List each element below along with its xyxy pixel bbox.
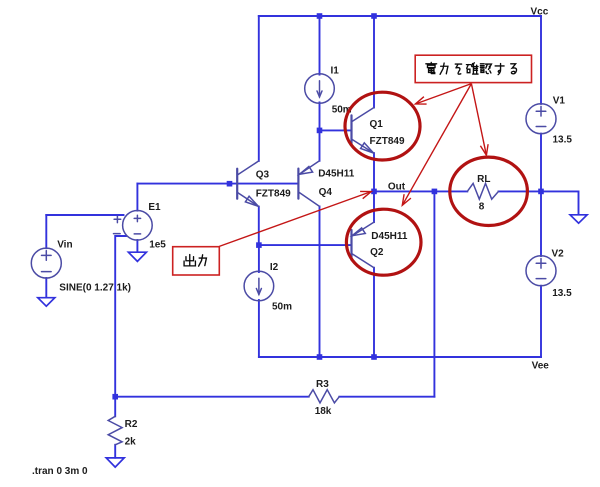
transistor Q4 PNP [298, 161, 319, 207]
svg-text:R3: R3 [316, 379, 329, 390]
annotation box output [173, 247, 220, 275]
svg-text:D45H11: D45H11 [318, 169, 355, 180]
annotation arrow to Q1 [415, 84, 471, 104]
wire V2 bottom to Vee rail [540, 286, 542, 357]
resistor R3 [309, 390, 340, 403]
wire Q2 base row [259, 244, 352, 246]
wire Q4 collector down to Vee rail [319, 206, 321, 357]
svg-text:E1: E1 [148, 202, 161, 213]
wire node A to Q1 base [320, 129, 352, 131]
wire ground node to V2 top [540, 191, 542, 256]
svg-text:2k: 2k [125, 437, 137, 448]
svg-text:13.5: 13.5 [552, 288, 572, 299]
node junction I1 top rail [317, 13, 323, 19]
wire Q3 emitter down [258, 207, 260, 246]
wire E1 minus input down to feedback node [115, 236, 126, 397]
svg-text:.tran 0 3m 0: .tran 0 3m 0 [32, 466, 88, 477]
kanji RYOKU [440, 63, 448, 74]
transistor Q3 NPN [237, 161, 259, 207]
wire Vin bottom to ground [45, 278, 47, 298]
svg-text:8: 8 [479, 201, 485, 212]
svg-text:Out: Out [388, 182, 406, 193]
current source I1 [305, 74, 335, 104]
svg-text:V2: V2 [552, 249, 565, 260]
voltage source V2 [526, 256, 556, 286]
kanji RYOKU2 [199, 255, 207, 266]
annotation arrow to RL [471, 84, 486, 156]
kanji KAKU [466, 63, 478, 74]
annotation circle around Q1 [345, 92, 420, 160]
kanji NIN [480, 64, 491, 74]
wire I2 bottom to Vee rail [258, 300, 260, 357]
svg-text:50m: 50m [272, 302, 292, 313]
hiragana SU [495, 64, 504, 75]
hiragana RU [511, 64, 517, 74]
svg-text:1e5: 1e5 [149, 240, 166, 251]
wire R2 bottom [114, 445, 116, 458]
transistor Q2 PNP [352, 222, 375, 268]
svg-text:SINE(0 1.27 1k): SINE(0 1.27 1k) [59, 283, 131, 294]
svg-text:18k: 18k [315, 406, 332, 417]
kanji SHUTSU [184, 255, 195, 266]
wire I2 top [258, 245, 260, 272]
ground below R2 [106, 458, 124, 467]
transistor Q1 NPN [352, 108, 375, 154]
ground below E1 [128, 252, 146, 261]
svg-text:Q1: Q1 [370, 119, 384, 130]
node junction Q1 collector top rail [371, 13, 377, 19]
node junction ground mid rail [538, 189, 544, 195]
svg-text:V1: V1 [553, 96, 566, 107]
wire E1 bottom to ground [136, 240, 138, 252]
node junction feedback R2 R3 [112, 394, 118, 400]
wire V1 bottom to ground node [540, 134, 542, 192]
node A junction [317, 128, 323, 134]
ground symbols [38, 215, 587, 467]
ground right mid [570, 215, 587, 223]
vcvs E1 [114, 211, 153, 241]
wire base row to Q3 Q4 [137, 183, 298, 185]
node Out junction [371, 189, 377, 195]
svg-text:Vin: Vin [57, 240, 72, 251]
svg-text:I2: I2 [270, 262, 279, 273]
svg-text:Q2: Q2 [370, 247, 384, 258]
wire Q1 collector to Vcc rail [373, 16, 375, 108]
svg-text:D45H11: D45H11 [371, 231, 408, 242]
wire E1 output up [136, 184, 138, 211]
wire bottom Vee rail [259, 356, 541, 358]
annotation box kensho (power check) [415, 55, 531, 82]
wire I1 top [319, 16, 321, 75]
node junction Q3 base [227, 181, 233, 187]
wire Out row right of RL [499, 190, 542, 192]
wire Vin to E1 plus input [46, 214, 123, 216]
annotation text power check kanji [426, 62, 517, 74]
svg-text:FZT849: FZT849 [256, 189, 291, 200]
wire R3 left [115, 396, 309, 398]
hiragana WO [455, 64, 461, 74]
annotation circle around RL [450, 157, 528, 225]
wire top Vcc rail [259, 15, 541, 17]
svg-text:Vee: Vee [532, 361, 550, 372]
voltage source V1 [526, 104, 556, 134]
annotation circle around Q2 [346, 209, 421, 275]
wire ground tap right [541, 191, 579, 214]
node junction Q2 collector Vee rail [371, 354, 377, 360]
ground below Vin [38, 298, 55, 307]
wire Q2 collector to Vee rail [373, 268, 375, 357]
wire feedback vertical [433, 191, 435, 396]
wire Vin top [45, 215, 47, 248]
wire Q2 emitter to Out [373, 191, 375, 222]
annotation text output kanji [184, 255, 206, 267]
wire right rail to V1 top [540, 16, 542, 104]
svg-text:Q3: Q3 [256, 170, 270, 181]
svg-text:Vcc: Vcc [531, 7, 549, 18]
annotation arrow output to Out [219, 192, 371, 247]
current source I2 [244, 271, 274, 301]
kanji DEN [426, 62, 437, 73]
wire Q3 collector up to Vcc rail [258, 16, 260, 161]
wire I1 bottom to node A [319, 102, 321, 130]
wire Out row left of RL [374, 190, 467, 192]
voltage source Vin [31, 248, 61, 278]
wire R2 top [114, 397, 116, 417]
resistor R2 [108, 416, 122, 445]
node junction I2 top [256, 242, 262, 248]
svg-text:FZT849: FZT849 [370, 136, 405, 147]
svg-text:I1: I1 [331, 66, 340, 77]
svg-text:13.5: 13.5 [553, 135, 573, 146]
node junction feedback top [432, 189, 438, 195]
svg-text:Q4: Q4 [319, 187, 333, 198]
resistor RL [467, 183, 498, 199]
wire Q1 emitter to Out [373, 153, 375, 191]
wire R3 right [339, 396, 434, 398]
wire Q4 emitter up to node A [319, 130, 321, 160]
svg-text:R2: R2 [125, 419, 138, 430]
annotation arrow to Q2 [402, 84, 471, 206]
node junction Q4 collector Vee rail [317, 354, 323, 360]
svg-text:RL: RL [477, 174, 490, 185]
